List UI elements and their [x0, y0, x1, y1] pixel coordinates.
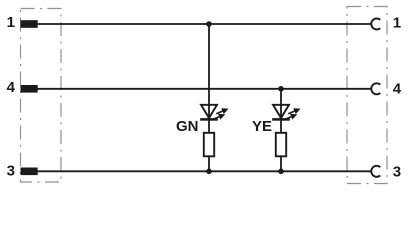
LED YE: emission arrow upper: [288, 108, 300, 114]
svg-text:GN: GN: [176, 118, 199, 135]
wire: GN LED cathode to resistor: [208, 119, 210, 133]
wire: GN resistor to line 3: [208, 156, 210, 172]
svg-text:4: 4: [393, 81, 402, 98]
LED GN: cathode bar: [200, 118, 218, 121]
svg-text:1: 1: [7, 14, 15, 31]
right socket contact 3: [371, 166, 380, 177]
node on line 4 (YE branch tap): [278, 86, 284, 92]
wire: GN branch vertical from line 1 to LED: [208, 24, 210, 119]
right socket contact 1: [371, 19, 380, 30]
svg-text:3: 3: [7, 163, 15, 180]
wire: YE resistor to line 3: [280, 156, 282, 172]
node on line 3 (YE branch join): [278, 169, 284, 175]
wire line 4: [38, 88, 372, 90]
resistor R (GN branch): [204, 133, 214, 157]
left pin 4 contact: [21, 85, 38, 93]
svg-text:1: 1: [393, 15, 401, 32]
LED GN: triangle: [201, 105, 217, 118]
LED GN: emission arrow upper: [216, 108, 228, 114]
right socket contact 4: [371, 83, 380, 94]
wire line 1 (pin1 left to pin1 right): [38, 23, 372, 25]
wire line 3: [38, 170, 372, 172]
right connector housing outline (dash-dot): [347, 7, 387, 184]
node on line 1 (GN branch tap): [206, 21, 212, 27]
svg-text:4: 4: [7, 79, 16, 96]
wire: YE LED cathode to resistor: [280, 119, 282, 133]
wire: YE branch vertical from line 4 to LED: [280, 89, 282, 119]
resistor R (YE branch): [276, 133, 286, 157]
svg-text:3: 3: [393, 163, 401, 180]
node on line 3 (GN branch join): [206, 169, 212, 175]
LED YE: cathode bar: [272, 118, 290, 121]
LED GN: emission arrow lower: [213, 114, 225, 120]
svg-text:YE: YE: [252, 118, 272, 135]
LED YE: triangle: [273, 105, 289, 118]
left pin 3 contact: [21, 168, 38, 176]
left pin 1 contact: [21, 20, 38, 28]
LED YE: emission arrow lower: [285, 114, 297, 120]
left connector housing outline (dash-dot): [21, 9, 62, 183]
